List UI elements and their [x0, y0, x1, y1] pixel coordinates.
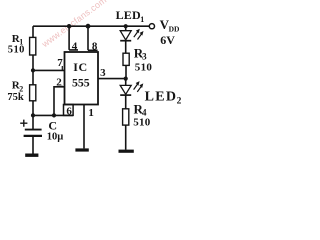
- svg-text:IC: IC: [73, 60, 87, 74]
- svg-text:1: 1: [88, 107, 94, 119]
- svg-text:3: 3: [142, 52, 147, 62]
- svg-text:510: 510: [8, 44, 25, 55]
- svg-text:10µ: 10µ: [47, 131, 64, 142]
- svg-text:3: 3: [100, 67, 106, 79]
- svg-text:510: 510: [135, 62, 153, 74]
- svg-text:LED: LED: [145, 89, 178, 104]
- svg-text:510: 510: [133, 117, 151, 129]
- svg-text:4: 4: [72, 40, 78, 52]
- svg-text:6V: 6V: [160, 33, 175, 47]
- svg-text:2: 2: [177, 97, 182, 107]
- svg-text:6: 6: [66, 105, 72, 117]
- svg-text:1: 1: [140, 15, 144, 24]
- svg-text:555: 555: [72, 76, 90, 90]
- svg-text:2: 2: [56, 77, 62, 89]
- svg-text:C: C: [48, 118, 57, 132]
- svg-text:7: 7: [57, 57, 63, 69]
- svg-text:75k: 75k: [7, 92, 24, 103]
- svg-text:8: 8: [92, 41, 98, 53]
- svg-text:LED: LED: [116, 8, 141, 22]
